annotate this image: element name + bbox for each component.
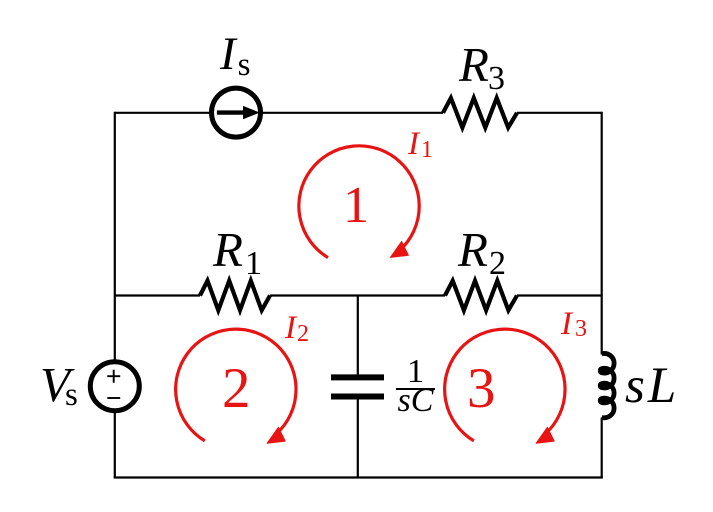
mesh current loop 3 arrowhead	[536, 427, 554, 443]
label Vs	[40, 360, 78, 409]
label sL	[625, 361, 679, 412]
resistor R3	[443, 98, 517, 128]
mesh current loop 2 arc	[176, 329, 296, 441]
voltage source Vs	[90, 362, 139, 411]
label R1	[213, 225, 262, 274]
label I1	[408, 128, 433, 161]
wire capacitor lower	[357, 399, 359, 478]
plus sign	[107, 370, 120, 383]
label I3	[561, 308, 587, 341]
mesh current loop 2 arrowhead	[267, 427, 285, 443]
current source Is	[212, 88, 261, 137]
mesh current loop 1 arrowhead	[390, 242, 408, 258]
wire middle-center segment	[270, 294, 445, 296]
inductor sL coil	[600, 353, 614, 417]
label 1/sC fraction	[396, 356, 435, 411]
label I2	[285, 312, 309, 345]
wire top-right segment	[517, 112, 602, 114]
mesh current loop 1 arc	[299, 146, 419, 258]
capacitor C plates	[331, 374, 384, 380]
wire bottom	[114, 476, 603, 478]
label mesh number 3	[467, 360, 496, 417]
wire middle-left segment	[115, 294, 200, 296]
wire capacitor upper	[357, 296, 359, 376]
label R2	[458, 225, 506, 274]
label mesh number 2	[222, 360, 251, 417]
label Is	[220, 31, 251, 78]
wire right upper	[601, 112, 603, 355]
mesh current loop 3 arc	[445, 329, 565, 441]
wire top	[115, 112, 443, 114]
wire middle-right segment	[517, 294, 602, 296]
current source arrow	[217, 110, 244, 114]
resistor R1	[200, 281, 270, 311]
wire right lower	[601, 418, 603, 478]
wire left	[114, 112, 116, 478]
resistor R2	[445, 281, 517, 311]
label R3	[459, 40, 505, 89]
minus sign	[107, 397, 120, 399]
label mesh number 1	[343, 180, 369, 232]
